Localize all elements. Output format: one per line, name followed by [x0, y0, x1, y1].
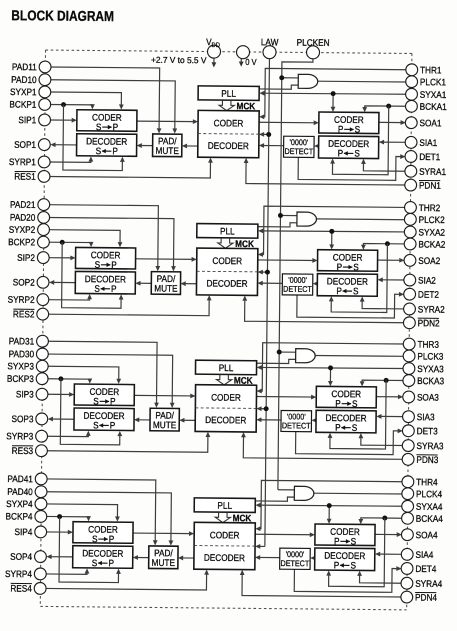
svg-text:SIP3: SIP3 — [16, 389, 34, 400]
wire central CODER out to coder P-S — [255, 533, 313, 536]
pin BCKP2 — [37, 236, 49, 248]
block decoder S from P channel 2 — [75, 271, 135, 294]
junction PLCKEN channel 3 — [277, 350, 282, 355]
wire PLCKEN tap to AND gate — [282, 77, 298, 79]
pin SOA3 — [403, 391, 415, 403]
svg-text:SIA1: SIA1 — [419, 137, 437, 148]
AND gate PLCK4 — [294, 486, 314, 500]
pin RES1 — [38, 170, 50, 182]
wire AND gate out to PLCK4 — [313, 492, 402, 495]
wire PLL out to AND gate — [259, 85, 298, 90]
MCK clock arrow channel 3 — [216, 375, 231, 385]
block coder P to S channel 3 — [316, 386, 376, 408]
pin BCKP4 — [35, 510, 47, 522]
wire PDN3 to central block bottom — [243, 434, 403, 459]
svg-text:DET3: DET3 — [417, 426, 438, 437]
wire LAW tap to central block — [257, 545, 265, 547]
pin VSS (0 V reference) — [236, 46, 249, 59]
svg-text:S: S — [96, 146, 102, 157]
wire PDN2 to central block bottom — [245, 298, 405, 323]
svg-text:MUTE: MUTE — [154, 283, 177, 294]
svg-text:S: S — [92, 558, 98, 569]
wire detect out to DET2 — [297, 293, 403, 318]
svg-text:S: S — [352, 422, 358, 433]
wire PAD31 to PAD/MUTE top — [47, 341, 157, 406]
svg-text:DECODER: DECODER — [208, 140, 249, 151]
svg-text:MCK: MCK — [236, 101, 255, 112]
junction SYXA3 — [328, 365, 333, 370]
svg-text:BCKA3: BCKA3 — [417, 376, 444, 387]
block decoder P from S channel 4 — [315, 548, 375, 571]
block 0000 detect channel 1 — [284, 136, 315, 157]
svg-text:DECODER: DECODER — [327, 276, 368, 287]
svg-text:SIP4: SIP4 — [15, 527, 33, 538]
pin PAD30 — [36, 348, 48, 360]
wire SIA4 to decoder P-S — [377, 553, 402, 555]
svg-text:SOA1: SOA1 — [420, 118, 442, 129]
pin SIA2 — [404, 274, 416, 286]
svg-text:S: S — [94, 283, 100, 294]
wire PDN4 to central block bottom — [242, 572, 402, 597]
wire decoder S-P out to SOP1 — [52, 144, 77, 146]
svg-text:PLCKEN: PLCKEN — [297, 37, 330, 48]
pin SYRP1 — [38, 156, 50, 168]
svg-text:SOP4: SOP4 — [10, 551, 32, 562]
svg-text:SOA4: SOA4 — [416, 530, 438, 541]
pin RES2 — [37, 308, 49, 320]
wire detect out to DET1 — [298, 156, 404, 181]
pin SYRP4 — [34, 568, 46, 580]
pin PLCK2 — [404, 213, 416, 225]
svg-text:BCKP1: BCKP1 — [9, 99, 36, 110]
wire RES2 to central block bottom — [48, 296, 209, 316]
svg-text:0 V: 0 V — [245, 57, 257, 67]
svg-text:SYRA1: SYRA1 — [419, 166, 446, 177]
svg-text:BCKA1: BCKA1 — [420, 101, 447, 112]
block decoder P from S channel 1 — [319, 136, 379, 159]
svg-text:DETECT: DETECT — [284, 147, 313, 157]
svg-text:+2.7 V to 5.5 V: +2.7 V to 5.5 V — [151, 55, 207, 66]
pin DET1 — [405, 151, 417, 163]
svg-text:P: P — [334, 536, 340, 547]
wire SYXA1 to PLL input and coder P-S top — [261, 93, 406, 95]
junction BCKP1 — [61, 102, 66, 107]
svg-text:MUTE: MUTE — [152, 557, 175, 568]
block PLL channel 3 — [195, 360, 256, 375]
pin SOP2 — [37, 276, 49, 288]
pin SYRA3 — [402, 440, 414, 452]
svg-text:DETECT: DETECT — [282, 421, 311, 431]
svg-text:DECODER: DECODER — [82, 548, 123, 559]
chip boundary dashed bottom — [40, 606, 406, 609]
pin SYXP2 — [38, 224, 50, 236]
wire PLL out to AND gate — [255, 497, 294, 502]
junction BCKA2 — [385, 241, 390, 246]
svg-text:BCKP2: BCKP2 — [8, 237, 35, 248]
svg-text:SYXA3: SYXA3 — [417, 364, 444, 375]
wire PAD41 to PAD/MUTE top — [46, 479, 156, 544]
svg-text:PAD41: PAD41 — [7, 473, 33, 484]
pin DET2 — [404, 288, 416, 300]
wire PAD21 to PAD/MUTE top — [48, 205, 158, 270]
svg-text:P: P — [110, 420, 116, 431]
wire AND gate out to PLCK3 — [315, 354, 404, 357]
wire SYRP4 to decoder S-P bottom — [45, 570, 87, 574]
wire RES3 to central block bottom — [46, 432, 207, 452]
block central CODER/DECODER channel 4 — [194, 522, 255, 569]
wire central DECODER out to PAD/MUTE — [180, 557, 194, 559]
block decoder P from S channel 3 — [316, 410, 376, 433]
wire SYXP4 to coder S-P top — [46, 504, 118, 520]
svg-text:PLL: PLL — [221, 88, 236, 99]
wire SIP1 to coder S-P — [50, 119, 75, 121]
block decoder P from S channel 2 — [317, 274, 377, 297]
svg-text:RES3: RES3 — [12, 445, 34, 456]
pin PAD21 — [38, 199, 50, 211]
chip boundary dashed left — [40, 50, 45, 606]
block central CODER/DECODER channel 2 — [196, 248, 257, 295]
pin SYXP3 — [36, 360, 48, 372]
svg-text:PLL: PLL — [217, 500, 232, 511]
svg-text:PLL: PLL — [219, 362, 234, 373]
pin BCKP3 — [36, 373, 48, 385]
pin SYXA1 — [406, 88, 418, 100]
svg-text:SYXP1: SYXP1 — [10, 86, 37, 97]
svg-text:P: P — [337, 262, 343, 273]
svg-text:MUTE: MUTE — [153, 420, 176, 431]
svg-text:PAD40: PAD40 — [7, 486, 33, 497]
block PAD/MUTE channel 2 — [151, 272, 180, 295]
wire BCKP2 feedback to decoder S-P bottom — [62, 242, 122, 308]
pin SIP4 — [35, 526, 47, 538]
wire SYXP2 to coder S-P top — [48, 230, 120, 246]
wire 0000 detect to central DECODER — [259, 282, 282, 284]
pin THR1 — [406, 64, 418, 76]
wire decoder P-S out to 0000 detect — [313, 419, 316, 421]
wire SIP3 to coder S-P — [47, 393, 72, 395]
svg-text:DECODER: DECODER — [86, 136, 127, 147]
wire SYRA2 to decoder P-S bottom — [362, 299, 404, 309]
wire BCKP1 to coder S-P top — [50, 104, 93, 107]
wire PAD30 to PAD/MUTE top — [47, 354, 173, 406]
pin PAD40 — [35, 486, 47, 498]
wire PLCKEN bus: down, left, down to channel 4 — [278, 58, 313, 490]
wire PAD20 to PAD/MUTE top — [48, 217, 174, 269]
svg-text:DECODER: DECODER — [325, 412, 366, 423]
wire SYRA3 to decoder P-S bottom — [361, 435, 403, 445]
pin BCKA4 — [402, 512, 414, 524]
pin RES3 — [35, 445, 47, 457]
wire central CODER out to coder P-S — [258, 259, 316, 262]
svg-text:P: P — [338, 124, 344, 135]
wire PAD/MUTE out to decoder S-P — [137, 282, 151, 284]
wire PLCKEN tap to AND gate — [280, 214, 296, 216]
svg-text:DECODER: DECODER — [204, 552, 245, 563]
svg-text:P: P — [335, 398, 341, 409]
wire BCKA3 to coder P-S top — [362, 380, 404, 384]
svg-text:SYXA4: SYXA4 — [416, 501, 443, 512]
junction PLCKEN channel 1 — [279, 75, 284, 80]
block 0000 detect channel 3 — [281, 410, 312, 431]
pin LAW — [263, 46, 276, 59]
pin VDD — [207, 45, 220, 58]
wire BCKA4 down to decoder P-S bottom — [329, 518, 385, 587]
wire BCKA1 to coder P-S top — [365, 106, 407, 110]
junction BCKA1 — [386, 104, 391, 109]
wire THR4 to central CODER right edge — [257, 480, 403, 530]
wire SYXP1 to coder S-P top — [50, 92, 122, 108]
wire PAD/MUTE out to decoder S-P — [136, 419, 150, 421]
wire BCKA2 down to decoder P-S bottom — [331, 243, 387, 312]
pin PDN3 — [402, 453, 414, 465]
svg-text:SIA4: SIA4 — [415, 549, 433, 560]
svg-text:PLCK3: PLCK3 — [417, 351, 443, 362]
svg-text:BLOCK DIAGRAM: BLOCK DIAGRAM — [11, 7, 114, 24]
wire coder P-S out to SOA3 — [376, 396, 401, 398]
svg-text:THR3: THR3 — [417, 339, 439, 350]
wire SYXA2 to PLL input and coder P-S top — [260, 231, 405, 233]
AND gate PLCK1 — [298, 74, 318, 88]
wire decoder P-S out to 0000 detect — [316, 145, 319, 147]
block coder S to P channel 1 — [77, 110, 137, 132]
pin SIA4 — [401, 548, 413, 560]
svg-text:PLCK1: PLCK1 — [420, 77, 446, 88]
block coder P to S channel 1 — [319, 112, 379, 134]
MCK clock arrow channel 2 — [218, 238, 233, 248]
junction LAW channel 3 — [264, 406, 269, 411]
svg-text:SYXA1: SYXA1 — [420, 89, 447, 100]
wire THR2 to central CODER right edge — [260, 206, 406, 256]
svg-text:S: S — [95, 259, 101, 270]
svg-text:SOA2: SOA2 — [418, 255, 440, 266]
svg-text:PLCK2: PLCK2 — [419, 214, 445, 225]
svg-text:DECODER: DECODER — [83, 410, 124, 421]
wire decoder P-S out to 0000 detect — [314, 283, 317, 285]
wire SYRP3 to decoder S-P bottom — [47, 432, 89, 436]
junction LAW channel 2 — [265, 270, 270, 275]
pin PLCK3 — [403, 350, 415, 362]
svg-text:PLL: PLL — [220, 226, 235, 237]
pin THR3 — [403, 338, 415, 350]
svg-text:PDN3: PDN3 — [416, 454, 438, 465]
AND gate PLCK3 — [296, 349, 316, 363]
wire SIA2 to decoder P-S — [379, 279, 404, 281]
junction BCKP2 — [60, 240, 65, 245]
pin PAD11 — [39, 61, 51, 73]
svg-text:SOA3: SOA3 — [417, 392, 439, 403]
junction PLCKEN channel 2 — [278, 213, 283, 218]
block PLL channel 4 — [194, 498, 255, 513]
svg-text:SYRP4: SYRP4 — [5, 568, 32, 579]
wire coder P-S out to SOA1 — [379, 121, 404, 123]
wire LAW tap to central block — [259, 271, 267, 273]
wire SYRA4 to decoder P-S bottom — [360, 573, 402, 583]
svg-text:DECODER: DECODER — [206, 278, 247, 289]
svg-text:PAD30: PAD30 — [9, 349, 35, 360]
pin BCKA3 — [403, 375, 415, 387]
svg-text:SIP1: SIP1 — [18, 115, 36, 126]
wire SYXP3 to coder S-P top — [47, 366, 119, 382]
wire SYRP1 to decoder S-P bottom — [49, 158, 91, 162]
svg-text:THR1: THR1 — [420, 65, 442, 76]
pin THR2 — [405, 202, 417, 214]
svg-text:PAD21: PAD21 — [10, 199, 36, 210]
wire THR1 to central CODER right edge — [261, 68, 407, 118]
pin PLCK4 — [402, 488, 414, 500]
chip boundary dashed right — [407, 53, 412, 609]
svg-text:DET1: DET1 — [419, 151, 440, 162]
svg-text:P: P — [111, 283, 117, 294]
svg-text:PAD10: PAD10 — [11, 74, 37, 85]
wire PAD10 to PAD/MUTE top — [49, 80, 175, 132]
svg-text:SYXP3: SYXP3 — [7, 361, 34, 372]
svg-text:PDN2: PDN2 — [418, 318, 440, 329]
svg-text:DET4: DET4 — [415, 563, 436, 574]
wire PLL out to AND gate — [258, 222, 297, 227]
wire PAD/MUTE out to decoder S-P — [139, 145, 153, 147]
wire SIP4 to coder S-P — [46, 531, 71, 533]
svg-text:RES1: RES1 — [14, 171, 36, 182]
wire LAW tap to central block — [258, 408, 266, 410]
wire PDN1 to central block bottom — [246, 160, 406, 185]
svg-text:S: S — [93, 420, 99, 431]
svg-text:P: P — [111, 259, 117, 270]
pin SYRP2 — [37, 294, 49, 306]
wire decoder S-P out to SOP3 — [49, 418, 74, 420]
pin SOA1 — [405, 117, 417, 129]
junction SYXA1 — [331, 91, 336, 96]
wire coder S-P out to central CODER — [133, 532, 192, 535]
wire SYRP2 to decoder S-P bottom — [48, 296, 90, 300]
wire RES4 to central block bottom — [45, 570, 206, 590]
svg-text:DET2: DET2 — [418, 289, 439, 300]
svg-text:MCK: MCK — [235, 238, 254, 249]
svg-text:DETECT: DETECT — [283, 284, 312, 294]
wire SYXA3 to PLL input and coder P-S top — [259, 367, 404, 369]
pin SYRA2 — [404, 303, 416, 315]
pin THR4 — [402, 476, 414, 488]
wire RES1 to central block bottom — [49, 158, 210, 178]
wire AND gate out to PLCK2 — [316, 218, 405, 221]
svg-text:PAD11: PAD11 — [12, 62, 37, 73]
svg-text:MCK: MCK — [233, 513, 252, 524]
svg-text:P: P — [335, 422, 341, 433]
svg-text:SYXP2: SYXP2 — [9, 224, 36, 235]
svg-text:MUTE: MUTE — [155, 145, 178, 156]
pin SIP2 — [37, 252, 49, 264]
svg-text:PDN1: PDN1 — [419, 180, 441, 191]
block decoder S from P channel 4 — [73, 546, 133, 569]
block PAD/MUTE channel 1 — [153, 134, 182, 157]
block PAD/MUTE channel 3 — [150, 408, 179, 431]
svg-text:CODER: CODER — [214, 118, 244, 129]
pin PAD20 — [38, 211, 50, 223]
svg-text:PAD31: PAD31 — [9, 336, 35, 347]
block 0000 detect channel 4 — [280, 548, 311, 569]
pin SOP3 — [36, 413, 48, 425]
wire PLL out to AND gate — [257, 359, 296, 364]
svg-text:THR2: THR2 — [419, 202, 441, 213]
wire PAD/MUTE out to decoder S-P — [135, 556, 149, 558]
svg-text:CODER: CODER — [211, 392, 241, 403]
svg-text:BCKP4: BCKP4 — [6, 511, 33, 522]
wire coder S-P out to central CODER — [136, 258, 195, 261]
block coder S to P channel 3 — [74, 384, 134, 406]
block decoder S from P channel 1 — [77, 134, 137, 157]
wire PLCKEN tap to AND gate — [278, 489, 294, 491]
block coder P to S channel 4 — [315, 524, 375, 546]
junction LAW channel 1 — [266, 132, 271, 137]
svg-text:SYRA4: SYRA4 — [415, 578, 442, 589]
svg-text:DECODER: DECODER — [85, 274, 126, 285]
pin SOA2 — [404, 254, 416, 266]
svg-text:PAD20: PAD20 — [10, 212, 36, 223]
pin PDN1 — [405, 179, 417, 191]
pin SIP3 — [36, 388, 48, 400]
svg-text:P: P — [112, 146, 118, 157]
wire 0000 detect to central DECODER — [258, 419, 281, 421]
junction BCKA3 — [384, 378, 389, 383]
pin SYXA2 — [404, 226, 416, 238]
pin PAD41 — [35, 473, 47, 485]
wire central CODER out to coder P-S — [256, 396, 314, 399]
svg-text:DECODER: DECODER — [328, 138, 369, 149]
wire BCKP4 to coder S-P top — [46, 516, 89, 519]
wire BCKA2 to coder P-S top — [363, 244, 405, 248]
pin DET3 — [402, 425, 414, 437]
AND gate PLCK2 — [297, 212, 317, 226]
block coder S to P channel 4 — [73, 522, 133, 544]
pin BCKA1 — [405, 100, 417, 112]
svg-text:MCK: MCK — [234, 375, 253, 386]
VSS arrow 0 V — [240, 59, 242, 64]
svg-text:SYRP2: SYRP2 — [8, 294, 35, 305]
wire 0000 detect to central DECODER — [261, 144, 284, 146]
svg-text:P: P — [108, 558, 114, 569]
svg-text:SOP1: SOP1 — [14, 139, 36, 150]
svg-text:S: S — [355, 124, 361, 135]
wire SIA1 to decoder P-S — [381, 141, 406, 143]
svg-text:S: S — [93, 396, 99, 407]
wire BCKA1 down to decoder P-S bottom — [332, 106, 388, 175]
wire coder S-P out to central CODER — [137, 120, 196, 123]
block PAD/MUTE channel 4 — [149, 546, 178, 569]
pin RES4 — [34, 582, 46, 594]
svg-text:SIP2: SIP2 — [17, 252, 35, 263]
wire central DECODER out to PAD/MUTE — [184, 145, 198, 147]
block 0000 detect channel 2 — [282, 274, 313, 295]
pin PDN2 — [403, 317, 415, 329]
wire BCKA3 down to decoder P-S bottom — [330, 380, 386, 449]
pin SYRA4 — [401, 577, 413, 589]
svg-text:S: S — [96, 122, 102, 133]
svg-text:RES4: RES4 — [10, 583, 32, 594]
svg-text:SIA3: SIA3 — [417, 412, 435, 423]
svg-text:DETECT: DETECT — [281, 559, 310, 569]
VDD supply arrow +2.7 V to 5.5 V — [213, 58, 215, 64]
wire BCKP4 feedback to decoder S-P bottom — [59, 517, 119, 583]
block PLL channel 2 — [197, 224, 258, 239]
svg-text:BCKP3: BCKP3 — [7, 373, 34, 384]
svg-text:SYRP3: SYRP3 — [6, 431, 33, 442]
wire BCKP3 to coder S-P top — [47, 379, 90, 382]
pin SOP4 — [35, 551, 47, 563]
wire central CODER out to coder P-S — [259, 121, 317, 124]
pin SYXP4 — [35, 498, 47, 510]
block central CODER/DECODER channel 1 — [198, 110, 259, 157]
wire BCKP2 to coder S-P top — [48, 242, 91, 245]
svg-text:VDD: VDD — [206, 37, 220, 50]
